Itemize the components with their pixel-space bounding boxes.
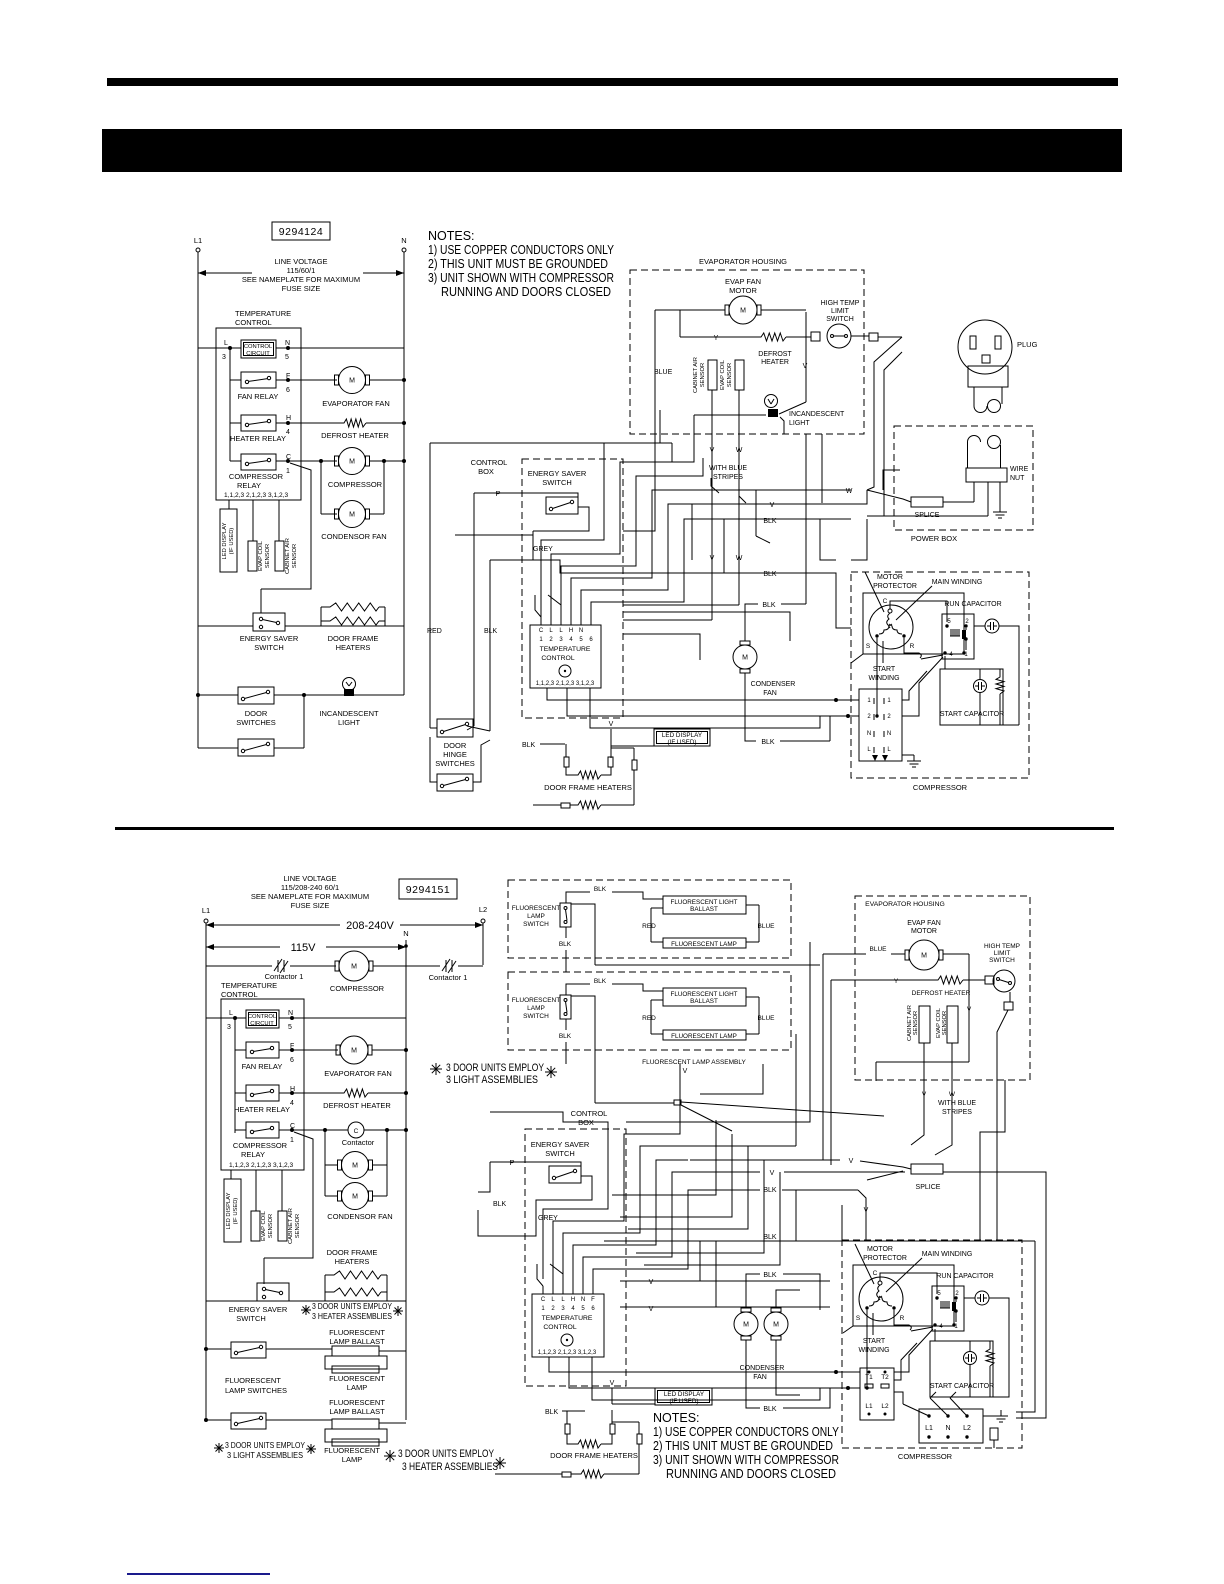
- svg-text:2) THIS UNIT MUST BE GROUNDED: 2) THIS UNIT MUST BE GROUNDED: [653, 1439, 833, 1453]
- svg-text:M: M: [352, 1193, 358, 1200]
- svg-text:RELAY: RELAY: [241, 1150, 265, 1159]
- svg-text:SPLICE: SPLICE: [916, 1184, 941, 1191]
- svg-text:SWITCH: SWITCH: [523, 1013, 549, 1020]
- svg-text:EVAPORATOR HOUSING: EVAPORATOR HOUSING: [699, 257, 787, 266]
- door frame heater R11: [565, 1424, 570, 1434]
- svg-text:L: L: [549, 628, 553, 634]
- condenser fan motor M12: [764, 1312, 788, 1336]
- svg-text:2: 2: [955, 1291, 959, 1297]
- redacted title bar: [102, 129, 1122, 172]
- svg-text:SENSOR: SENSOR: [913, 1011, 919, 1035]
- wires into terminal block bottom: [549, 1357, 860, 1372]
- svg-text:V: V: [803, 363, 808, 370]
- svg-text:COMPRESSOR: COMPRESSOR: [330, 984, 385, 993]
- control circuit U2: [246, 1010, 279, 1028]
- svg-text:CONTROL: CONTROL: [235, 318, 272, 327]
- svg-text:COMPRESSOR: COMPRESSOR: [328, 480, 383, 489]
- svg-text:6: 6: [589, 637, 593, 643]
- svg-text:RED: RED: [642, 923, 656, 930]
- condenser fan motor M11: [734, 1312, 758, 1336]
- wires ballast lamp 2: [651, 999, 663, 1001]
- svg-text:HEATERS: HEATERS: [335, 1257, 370, 1266]
- svg-text:DOOR: DOOR: [245, 709, 268, 718]
- fluorescent lamp 2: [332, 1439, 379, 1446]
- svg-text:L1: L1: [194, 236, 202, 245]
- wire C terminal drop: [261, 463, 311, 589]
- svg-text:3: 3: [222, 354, 226, 361]
- svg-text:CONTROL: CONTROL: [248, 1014, 277, 1020]
- plug P1: [958, 320, 1012, 374]
- svg-text:DOOR: DOOR: [444, 741, 467, 750]
- wire BLK right drop: [1016, 1241, 1035, 1412]
- svg-text:BLK: BLK: [484, 628, 498, 635]
- svg-text:LED DISPLAY: LED DISPLAY: [662, 732, 703, 739]
- svg-text:FAN RELAY: FAN RELAY: [242, 1062, 283, 1071]
- door switch S2: [238, 687, 274, 704]
- svg-text:CIRCUIT: CIRCUIT: [246, 351, 270, 357]
- fuse holder small: [990, 1428, 998, 1440]
- wires ballast lamp 1: [651, 907, 663, 909]
- svg-text:FLUORESCENT: FLUORESCENT: [329, 1398, 385, 1407]
- svg-text:V: V: [610, 1380, 615, 1387]
- svg-text:DOOR FRAME: DOOR FRAME: [327, 1248, 378, 1257]
- svg-text:1,1,2,3 2,1,2,3 3,1,2,3: 1,1,2,3 2,1,2,3 3,1,2,3: [229, 1162, 293, 1169]
- svg-text:CONDENSOR FAN: CONDENSOR FAN: [327, 1212, 392, 1221]
- wire evap fan motor leads: [655, 309, 725, 311]
- compressor relay K3: [241, 454, 276, 470]
- svg-text:WINDING: WINDING: [868, 675, 899, 682]
- svg-text:M: M: [773, 1321, 779, 1328]
- wire R lead: [904, 638, 919, 653]
- wire C terminal drop bottom: [264, 1132, 313, 1258]
- note 3 light assemblies mid: [430, 1068, 442, 1070]
- svg-text:FLUORESCENT LAMP: FLUORESCENT LAMP: [671, 941, 737, 948]
- svg-text:CONTROL: CONTROL: [221, 990, 258, 999]
- svg-text:4: 4: [939, 1324, 943, 1330]
- svg-text:3: 3: [559, 637, 563, 643]
- svg-text:M: M: [743, 1321, 749, 1328]
- wire sensor bus: [260, 589, 262, 613]
- svg-text:N: N: [581, 1297, 585, 1303]
- fluorescent lamp housing 1: [325, 1356, 387, 1369]
- svg-text:NOTES:: NOTES:: [428, 229, 475, 243]
- splice bottom: [911, 1164, 943, 1174]
- svg-text:FLUORESCENT LAMP ASSEMBLY: FLUORESCENT LAMP ASSEMBLY: [642, 1059, 746, 1066]
- svg-text:V: V: [770, 1170, 775, 1177]
- wire R lead bottom: [894, 1310, 909, 1325]
- svg-text:EVAPORATOR FAN: EVAPORATOR FAN: [324, 1069, 392, 1078]
- svg-text:GREY: GREY: [533, 546, 553, 553]
- svg-text:COMPRESSOR: COMPRESSOR: [233, 1141, 288, 1150]
- svg-text:V: V: [609, 721, 614, 728]
- compressor motor windings bottom: [859, 1277, 903, 1321]
- defrost heater R1: [341, 419, 366, 427]
- svg-text:COMPRESSOR: COMPRESSOR: [913, 783, 968, 792]
- compressor relay K6: [246, 1122, 279, 1138]
- svg-text:CIRCUIT: CIRCUIT: [250, 1021, 274, 1027]
- page top rule: [107, 78, 1118, 86]
- dimension 208-240V: [206, 924, 340, 926]
- led display box (bottom diagram): [655, 1388, 712, 1405]
- wire mesh extra bottom: [612, 1120, 716, 1195]
- wire incandescent drop: [659, 410, 661, 443]
- wire control circuit row bottom: [206, 1017, 246, 1019]
- svg-text:H: H: [286, 415, 291, 422]
- evaporator housing enclosure bottom: [855, 896, 1030, 1080]
- wire condensor fan branch right: [383, 461, 385, 514]
- svg-text:H: H: [571, 1297, 575, 1303]
- svg-text:1) USE COPPER CONDUCTORS ONLY: 1) USE COPPER CONDUCTORS ONLY: [428, 243, 615, 257]
- svg-text:CONDENSOR FAN: CONDENSOR FAN: [321, 532, 386, 541]
- svg-text:5: 5: [579, 637, 583, 643]
- condenser fan wires: [745, 604, 758, 641]
- wire L1 rail bottom: [205, 923, 207, 1420]
- svg-text:WINDING: WINDING: [858, 1347, 889, 1354]
- temperature control module (control box, top): [530, 625, 601, 688]
- wire mesh right verticals: [691, 504, 693, 560]
- wire BLK lamp switch top 2: [566, 984, 590, 995]
- ground symbol power box: [999, 506, 1001, 512]
- svg-text:SEE NAMEPLATE FOR MAXIMUM: SEE NAMEPLATE FOR MAXIMUM: [242, 275, 360, 284]
- fluorescent lamp tube 1: [663, 938, 746, 948]
- svg-text:1: 1: [539, 637, 543, 643]
- contactor 1 left: [206, 965, 272, 967]
- svg-text:HEATER RELAY: HEATER RELAY: [234, 1105, 290, 1114]
- wires into splice: [867, 490, 911, 502]
- incandescent light DS2: [765, 395, 778, 408]
- cabinet air sensor RT7: [919, 1006, 930, 1043]
- svg-text:3 DOOR UNITS EMPLOY: 3 DOOR UNITS EMPLOY: [446, 1062, 545, 1074]
- svg-text:FLUORESCENT LIGHT: FLUORESCENT LIGHT: [670, 991, 737, 998]
- svg-text:R: R: [900, 1315, 905, 1322]
- fluorescent lamp assembly 2 enclosure: [508, 972, 791, 1050]
- svg-text:BLK: BLK: [493, 1201, 507, 1208]
- svg-text:ENERGY SAVER: ENERGY SAVER: [531, 1140, 590, 1149]
- svg-text:EVAP FAN: EVAP FAN: [907, 920, 941, 927]
- svg-text:RUN CAPACITOR: RUN CAPACITOR: [936, 1273, 993, 1280]
- svg-text:L: L: [229, 1010, 233, 1017]
- schematic 9294151 part number box: [399, 879, 457, 899]
- ground bottom right: [983, 1415, 995, 1417]
- dimension 115V: [206, 946, 280, 948]
- svg-text:HINGE: HINGE: [443, 750, 467, 759]
- svg-text:1,1,2,3 2,1,2,3 3,1,2,3: 1,1,2,3 2,1,2,3 3,1,2,3: [536, 681, 595, 687]
- fluorescent light ballast 2: [663, 988, 746, 1006]
- svg-text:M: M: [352, 1162, 358, 1169]
- condenser fan wires bottom: [746, 1274, 760, 1308]
- svg-text:LED DISPLAY: LED DISPLAY: [664, 1391, 705, 1398]
- wire BLK lamp switch bottom 2: [565, 1019, 567, 1030]
- wires temperature control terminals bottom: [542, 1286, 544, 1294]
- svg-text:HEATERS: HEATERS: [336, 643, 371, 652]
- svg-text:ENERGY SAVER: ENERGY SAVER: [528, 469, 587, 478]
- svg-text:2: 2: [551, 1306, 555, 1312]
- wire lamp switch side 2: [571, 996, 595, 1057]
- svg-text:NUT: NUT: [1010, 475, 1025, 482]
- svg-text:CONTROL: CONTROL: [541, 655, 574, 662]
- svg-text:MAIN WINDING: MAIN WINDING: [932, 579, 983, 586]
- svg-text:115/208-240 60/1: 115/208-240 60/1: [281, 883, 339, 892]
- svg-text:BLK: BLK: [763, 1272, 777, 1279]
- svg-text:BLK: BLK: [763, 1187, 777, 1194]
- svg-text:HEATER: HEATER: [761, 359, 789, 366]
- wire L1 rail: [197, 252, 199, 748]
- svg-text:SENSOR: SENSOR: [700, 363, 706, 387]
- wires into terminal block: [547, 688, 859, 700]
- compressor enclosure (bottom): [842, 1240, 1022, 1448]
- wire S lead bottom: [866, 1310, 868, 1388]
- svg-text:L: L: [551, 1297, 555, 1303]
- svg-text:LED DISPLAY: LED DISPLAY: [226, 1192, 232, 1229]
- svg-text:2: 2: [887, 714, 891, 720]
- svg-text:EVAP COIL: EVAP COIL: [258, 540, 264, 571]
- svg-text:3 DOOR UNITS EMPLOY: 3 DOOR UNITS EMPLOY: [398, 1448, 494, 1460]
- svg-text:SWITCHES: SWITCHES: [236, 718, 276, 727]
- svg-text:(IF USED): (IF USED): [667, 739, 696, 746]
- svg-text:L: L: [561, 1297, 565, 1303]
- compressor terminal block T1 T2 L1 L2: [860, 1368, 894, 1420]
- svg-text:LIMIT: LIMIT: [994, 950, 1011, 957]
- svg-text:LINE VOLTAGE: LINE VOLTAGE: [283, 874, 336, 883]
- svg-text:4: 4: [569, 637, 573, 643]
- svg-text:S: S: [856, 1315, 861, 1322]
- svg-text:BOX: BOX: [478, 467, 494, 476]
- compressor ground: [902, 754, 914, 756]
- svg-text:EVAPORATOR HOUSING: EVAPORATOR HOUSING: [865, 901, 945, 908]
- svg-text:FLUORESCENT LAMP: FLUORESCENT LAMP: [671, 1033, 737, 1040]
- svg-text:SENSOR: SENSOR: [292, 544, 298, 568]
- wire sensor bottom bus: [876, 1061, 969, 1063]
- heater terminal right: [612, 1421, 639, 1423]
- svg-text:M: M: [349, 458, 355, 465]
- svg-text:MOTOR: MOTOR: [877, 574, 903, 581]
- cabinet air sensor RT3: [708, 360, 717, 390]
- wire BLK lamp switch top 1: [566, 892, 590, 903]
- evaporator fan motor M1: [339, 367, 366, 394]
- svg-text:TEMPERATURE: TEMPERATURE: [235, 309, 291, 318]
- svg-text:FLUORESCENT: FLUORESCENT: [329, 1328, 385, 1337]
- svg-text:FLUORESCENT: FLUORESCENT: [329, 1374, 385, 1383]
- svg-text:9294124: 9294124: [279, 226, 323, 238]
- led display connector: [220, 509, 237, 572]
- wire compressor feeds bottom: [800, 1274, 820, 1310]
- svg-text:SWITCH: SWITCH: [545, 1149, 575, 1158]
- led display box (top diagram): [654, 729, 710, 746]
- svg-text:SEE NAMEPLATE FOR MAXIMUM: SEE NAMEPLATE FOR MAXIMUM: [251, 892, 369, 901]
- wire relay feed bus bottom: [234, 1018, 236, 1133]
- svg-text:COMPRESSOR: COMPRESSOR: [898, 1452, 953, 1461]
- svg-text:W: W: [736, 447, 743, 454]
- svg-text:L1: L1: [202, 906, 210, 915]
- dimension arrows line voltage: [198, 272, 252, 274]
- wire N rail bottom: [405, 940, 407, 1420]
- svg-text:4: 4: [949, 652, 953, 658]
- svg-text:Contactor: Contactor: [342, 1138, 375, 1147]
- svg-text:START CAPACITOR: START CAPACITOR: [940, 711, 1004, 718]
- svg-text:2) THIS UNIT MUST BE GROUNDED: 2) THIS UNIT MUST BE GROUNDED: [428, 257, 608, 271]
- svg-text:POWER BOX: POWER BOX: [911, 534, 957, 543]
- cord loop in power box: [968, 436, 981, 443]
- svg-text:DEFROST: DEFROST: [758, 351, 792, 358]
- cabinet air sensor RT6: [278, 1211, 287, 1241]
- svg-text:9294151: 9294151: [406, 884, 450, 896]
- svg-text:3 LIGHT ASSEMBLIES: 3 LIGHT ASSEMBLIES: [227, 1451, 303, 1460]
- svg-text:C: C: [873, 1270, 878, 1277]
- wire mesh risers: [805, 434, 807, 604]
- heater right branch: [611, 747, 634, 749]
- svg-text:M: M: [742, 654, 748, 661]
- svg-text:NOTES:: NOTES:: [653, 1411, 700, 1425]
- temperature control box (bottom diagram): [221, 999, 304, 1170]
- wire harness mesh bottom: [490, 1112, 608, 1279]
- svg-text:V: V: [683, 1068, 688, 1075]
- svg-text:INCANDESCENT: INCANDESCENT: [319, 709, 379, 718]
- svg-text:RED: RED: [642, 1015, 656, 1022]
- svg-text:CABINET AIR: CABINET AIR: [693, 357, 699, 393]
- evap coil sensor RT1: [248, 541, 257, 571]
- wire led display leads: [610, 729, 612, 746]
- svg-text:3 DOOR UNITS EMPLOY: 3 DOOR UNITS EMPLOY: [312, 1302, 393, 1311]
- svg-text:WITH BLUE: WITH BLUE: [709, 465, 747, 472]
- run capacitor symbol: [985, 619, 999, 633]
- wire light leads: [694, 414, 766, 416]
- svg-text:SENSOR: SENSOR: [727, 363, 733, 387]
- svg-text:M: M: [349, 377, 355, 384]
- wire run cap right run: [999, 626, 1019, 725]
- wire C to run cap 5 bottom: [880, 1273, 937, 1294]
- svg-text:CABINET AIR: CABINET AIR: [285, 538, 291, 574]
- wire to incandescent light: [779, 402, 806, 414]
- svg-text:EVAPORATOR FAN: EVAPORATOR FAN: [322, 399, 390, 408]
- led display connector bottom: [224, 1179, 241, 1242]
- wire energy saver row bottom: [206, 1300, 257, 1302]
- svg-text:2: 2: [867, 714, 871, 720]
- svg-text:BLK: BLK: [545, 1409, 559, 1416]
- svg-text:SWITCH: SWITCH: [542, 478, 572, 487]
- svg-text:EVAP COIL: EVAP COIL: [261, 1210, 267, 1241]
- svg-text:Contactor 1: Contactor 1: [429, 973, 468, 982]
- fluorescent lamp assembly 1 enclosure: [508, 880, 791, 958]
- wire long black runs: [490, 560, 851, 628]
- fluorescent lamp housing 2: [325, 1429, 387, 1442]
- svg-text:SWITCH: SWITCH: [826, 316, 854, 323]
- svg-text:STRIPES: STRIPES: [713, 474, 743, 481]
- fluorescent lamp switch S10: [231, 1413, 266, 1429]
- svg-text:FLUORESCENT: FLUORESCENT: [512, 905, 560, 912]
- evap coil sensor RT4: [735, 360, 744, 390]
- wire fan relay row bottom: [235, 1049, 246, 1051]
- svg-text:DEFROST HEATER: DEFROST HEATER: [323, 1101, 391, 1110]
- svg-text:BLK: BLK: [763, 1406, 777, 1413]
- svg-text:(IF USED): (IF USED): [669, 1398, 698, 1405]
- svg-text:CONTROL: CONTROL: [543, 1324, 576, 1331]
- svg-text:V: V: [967, 1006, 972, 1013]
- svg-text:LAMP BALLAST: LAMP BALLAST: [329, 1407, 385, 1416]
- svg-text:1: 1: [290, 1137, 294, 1144]
- svg-text:CONTROL: CONTROL: [571, 1109, 608, 1118]
- svg-text:STRIPES: STRIPES: [942, 1109, 972, 1116]
- wire risers to evaporator bottom: [911, 1102, 924, 1145]
- temperature control box (top diagram): [216, 328, 301, 500]
- fluorescent lamp tube 2: [663, 1030, 746, 1040]
- fluorescent lamp ballast 1: [332, 1346, 379, 1356]
- svg-text:1) USE COPPER CONDUCTORS ONLY: 1) USE COPPER CONDUCTORS ONLY: [653, 1425, 840, 1439]
- svg-text:V: V: [770, 502, 775, 509]
- svg-text:6: 6: [591, 1306, 595, 1312]
- svg-text:L: L: [887, 747, 891, 753]
- wires temperature control terminals: [540, 617, 542, 625]
- compressor motor M6: [290, 965, 336, 967]
- svg-text:HIGH TEMP: HIGH TEMP: [984, 943, 1020, 950]
- wire long runs bottom: [604, 1240, 1035, 1242]
- condensor fan motor M8: [342, 1152, 369, 1179]
- svg-text:N: N: [579, 628, 583, 634]
- svg-text:SENSOR: SENSOR: [942, 1011, 948, 1035]
- wire run cap to terminal block bottom: [894, 1329, 933, 1372]
- svg-text:FUSE SIZE: FUSE SIZE: [291, 901, 330, 910]
- heater relay K2: [241, 415, 276, 431]
- svg-text:FAN RELAY: FAN RELAY: [238, 392, 279, 401]
- wire compressor relay row: [230, 460, 241, 462]
- svg-text:START: START: [863, 1338, 886, 1345]
- svg-text:4: 4: [290, 1100, 294, 1107]
- door frame heater R12: [562, 1472, 571, 1477]
- plug body: [968, 366, 1008, 387]
- svg-text:PROTECTOR: PROTECTOR: [863, 1255, 907, 1262]
- svg-text:BLK: BLK: [763, 571, 777, 578]
- svg-text:BALLAST: BALLAST: [690, 906, 718, 913]
- energy saver switch S1: [253, 613, 285, 631]
- door hinge switch S6: [437, 719, 473, 737]
- svg-text:TEMPERATURE: TEMPERATURE: [542, 1315, 593, 1322]
- svg-text:T2: T2: [881, 1374, 889, 1381]
- svg-text:FLUORESCENT: FLUORESCENT: [225, 1376, 281, 1385]
- motor protector frame: [863, 593, 964, 654]
- wires to power terminals: [894, 1392, 903, 1404]
- svg-text:W: W: [736, 555, 743, 562]
- svg-text:L: L: [224, 340, 228, 347]
- wire assembly1 output: [595, 964, 820, 966]
- svg-text:DEFROST HEATER: DEFROST HEATER: [912, 990, 971, 997]
- note 3 heater assemblies large: [384, 1455, 396, 1457]
- wire heater relay row bottom: [235, 1092, 246, 1094]
- svg-text:BLUE: BLUE: [758, 923, 776, 930]
- svg-text:PROTECTOR: PROTECTOR: [873, 583, 917, 590]
- wire compressor row bottom: [373, 965, 440, 967]
- svg-text:3 DOOR UNITS EMPLOY: 3 DOOR UNITS EMPLOY: [225, 1441, 306, 1450]
- power terminal box L1 N L2: [919, 1409, 983, 1443]
- svg-text:3 HEATER ASSEMBLIES: 3 HEATER ASSEMBLIES: [402, 1461, 498, 1473]
- svg-text:N: N: [403, 929, 408, 938]
- svg-text:4: 4: [571, 1306, 575, 1312]
- note 3 heater assemblies small: [301, 1309, 311, 1311]
- svg-text:V: V: [649, 1279, 654, 1286]
- svg-text:1: 1: [887, 698, 891, 704]
- svg-text:LIGHT: LIGHT: [789, 420, 810, 427]
- start capacitor: [940, 669, 1003, 725]
- svg-text:MAIN WINDING: MAIN WINDING: [922, 1251, 973, 1258]
- door frame heaters R2 R3: [320, 607, 322, 626]
- wire harness mesh top: [430, 442, 672, 444]
- wire fan relay row: [230, 379, 241, 381]
- svg-text:N: N: [945, 1425, 950, 1432]
- control circuit U1: [241, 340, 276, 358]
- svg-text:MOTOR: MOTOR: [729, 286, 757, 295]
- svg-text:FLUORESCENT LIGHT: FLUORESCENT LIGHT: [670, 899, 737, 906]
- svg-text:MOTOR: MOTOR: [867, 1246, 893, 1253]
- wire blue drop below housing: [623, 434, 655, 531]
- svg-text:H: H: [569, 628, 573, 634]
